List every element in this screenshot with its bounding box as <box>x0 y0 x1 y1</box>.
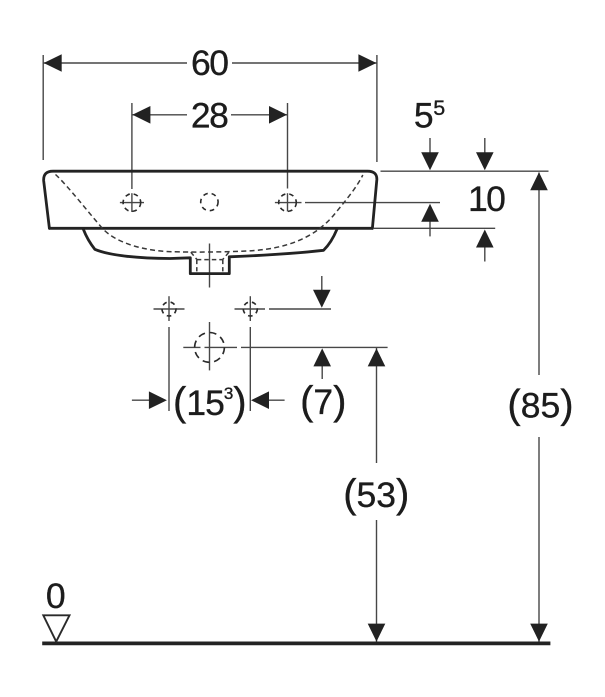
fixing hole left dashed circle <box>162 302 176 316</box>
right tap hole cross vertical <box>287 193 289 211</box>
dim (85) down arrowhead <box>530 624 548 642</box>
dim 5.5 down arrow tail <box>429 138 431 154</box>
dim 60 right arrowhead <box>358 54 376 72</box>
tap hole level extension line <box>305 202 440 204</box>
dim 60 right extension line <box>376 55 378 162</box>
dim (7) up arrowhead <box>313 348 331 366</box>
basin body outline <box>44 171 377 273</box>
dim (53) line upper <box>376 348 378 463</box>
dim 28 left extension line <box>131 103 133 189</box>
fixing hole level extension line <box>269 308 331 310</box>
svg-text:28: 28 <box>191 95 228 135</box>
svg-text:10: 10 <box>468 179 505 219</box>
drain center line vertical lower <box>209 322 211 370</box>
trap inner dashed top <box>197 259 223 261</box>
trap inner dashed left diagonal <box>191 252 229 271</box>
fixing hole right cross horizontal <box>235 308 266 310</box>
left tap hole dashed circle <box>123 194 141 212</box>
dim (85) line lower <box>538 437 540 642</box>
dim 28 line right segment <box>231 114 288 116</box>
dim 5.5 up arrowhead <box>421 204 439 222</box>
top edge extension line to (85) <box>381 170 549 172</box>
dim 10 down arrowhead <box>476 152 494 170</box>
svg-text:(53): (53) <box>343 472 409 516</box>
trap inner dashed left vertical <box>196 260 198 272</box>
inner bowl dashed curve <box>56 175 363 253</box>
fixing hole right dashed circle <box>243 302 257 316</box>
dim 10 up arrowhead <box>476 230 494 248</box>
trap inner dashed right diagonal <box>223 252 229 259</box>
svg-text:60: 60 <box>191 43 228 83</box>
dim 60 left extension line <box>42 55 44 160</box>
svg-text:(7): (7) <box>300 379 346 423</box>
left tap hole cross horizontal <box>120 202 144 204</box>
band bottom extension line <box>374 227 495 229</box>
basin upper band outline <box>44 171 377 228</box>
drain center line vertical upper <box>209 244 211 288</box>
drain center line horizontal seg1 <box>183 346 200 348</box>
dim (85) line upper <box>538 173 540 376</box>
fixing dim right vertical <box>249 327 251 411</box>
svg-text:5: 5 <box>414 95 434 135</box>
svg-text:(85): (85) <box>507 383 573 427</box>
dim 28 left arrowhead <box>132 106 150 124</box>
dim (7) down arrow tail <box>321 276 323 291</box>
middle tap hole dashed circle <box>201 193 218 210</box>
dim (7) up arrow tail <box>321 366 323 379</box>
dim (15\u00b3) right arrowhead <box>251 391 269 409</box>
dim (85) up arrowhead <box>530 172 548 190</box>
right tap hole dashed circle <box>279 194 297 212</box>
right tap hole cross horizontal <box>275 202 302 204</box>
dim 60 left arrowhead <box>44 54 62 72</box>
dim 28 right arrowhead <box>269 106 287 124</box>
dim (15\u00b3) right arrow tail <box>267 399 285 401</box>
arrowheads <box>44 54 548 641</box>
dim (53) up arrowhead <box>368 348 386 366</box>
dim 28 right extension line <box>287 103 289 189</box>
dim 5.5 up arrow tail <box>429 220 431 236</box>
dim 60 line right segment <box>232 62 377 64</box>
drain hole dashed circle <box>195 333 225 363</box>
svg-text:(153): (153) <box>173 380 247 424</box>
dim (53) line lower <box>376 520 378 642</box>
dim 60 line left segment <box>43 62 187 64</box>
datum triangle <box>43 615 69 641</box>
dim 10 up arrow tail <box>484 246 486 262</box>
trap inner dashed right vertical <box>222 260 224 272</box>
dim (15\u00b3) left arrowhead <box>149 391 167 409</box>
dim (53) down arrowhead <box>368 624 386 642</box>
basin band bottom edge <box>49 227 372 230</box>
dim (7) down arrowhead <box>313 290 331 308</box>
drain center line horizontal seg2 <box>205 346 238 348</box>
dim (15\u00b3) left arrow tail <box>132 399 151 401</box>
fixing hole left cross vertical <box>168 296 170 321</box>
tap hole circles <box>123 193 296 316</box>
fixing dim left vertical <box>168 327 170 411</box>
fixing hole right cross vertical <box>249 296 251 321</box>
dim 5.5 down arrowhead <box>421 152 439 170</box>
dim 28 line left segment <box>132 114 187 116</box>
left tap hole cross vertical <box>131 193 133 212</box>
basin bowl profile with trap <box>83 229 337 273</box>
svg-text:0: 0 <box>46 576 66 616</box>
svg-text:5: 5 <box>433 96 445 120</box>
fixing hole left cross horizontal <box>154 308 185 310</box>
floor line <box>42 642 550 646</box>
drain level extension line <box>241 346 388 348</box>
dim 10 down arrow tail <box>484 138 486 154</box>
